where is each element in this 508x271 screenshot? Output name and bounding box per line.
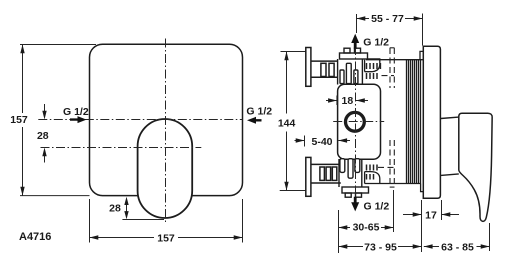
svg-text:G 1/2: G 1/2	[246, 106, 272, 118]
svg-text:A4716: A4716	[19, 231, 51, 243]
svg-text:G 1/2: G 1/2	[63, 106, 89, 118]
svg-text:17: 17	[425, 210, 437, 222]
svg-text:157: 157	[10, 114, 28, 126]
svg-text:G 1/2: G 1/2	[363, 37, 389, 49]
svg-text:30-65: 30-65	[353, 222, 380, 234]
svg-text:18: 18	[342, 95, 354, 107]
svg-text:5-40: 5-40	[311, 136, 332, 148]
svg-text:G 1/2: G 1/2	[364, 200, 390, 212]
svg-text:157: 157	[157, 233, 175, 245]
svg-text:144: 144	[278, 118, 296, 130]
svg-text:28: 28	[37, 130, 49, 142]
svg-text:73 - 95: 73 - 95	[364, 241, 397, 253]
svg-text:63 - 85: 63 - 85	[441, 242, 474, 254]
svg-text:28: 28	[109, 203, 121, 215]
svg-text:55 - 77: 55 - 77	[371, 13, 404, 25]
